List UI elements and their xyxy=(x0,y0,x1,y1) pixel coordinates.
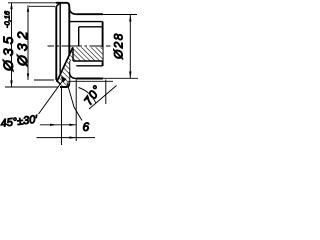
svg-text:6: 6 xyxy=(83,120,90,134)
extension line Ø28 top xyxy=(103,14,137,16)
dimension line Ø28 xyxy=(129,15,131,78)
right end face xyxy=(102,22,104,66)
arrow Ø32 bottom xyxy=(27,74,29,81)
svg-text:45°±30′: 45°±30′ xyxy=(0,113,39,130)
arrow Ø35 top xyxy=(10,3,12,10)
arrow Ø35 bottom xyxy=(10,81,12,88)
flange bottom edge with corner xyxy=(60,83,69,87)
hatch area xyxy=(73,47,103,61)
extension line 6 left xyxy=(61,88,63,145)
mouth chamfer 45 xyxy=(56,80,60,84)
arrow Ø28 bottom xyxy=(129,72,131,79)
extension line 6 right xyxy=(75,80,77,142)
top chamfer edge xyxy=(56,3,60,7)
svg-text:Ø32: Ø32 xyxy=(14,28,30,67)
extension line Ø28 bottom xyxy=(103,77,138,79)
chamfer crease line xyxy=(59,3,61,85)
bore bottom line xyxy=(73,60,103,62)
flange right side xyxy=(68,7,70,84)
centerline xyxy=(48,45,111,47)
flange top edge with corner xyxy=(56,3,69,7)
dimension line Ø32 xyxy=(27,5,29,80)
arrow Ø28 top xyxy=(129,15,131,22)
dimension line 6 xyxy=(40,124,76,126)
svg-text:-0,16: -0,16 xyxy=(3,10,12,28)
aux line below body xyxy=(68,80,113,82)
dimension line Ø35 xyxy=(11,3,13,87)
cone generatrix extension line xyxy=(89,86,117,110)
body top edge xyxy=(77,13,103,15)
inner step vertical top xyxy=(78,27,80,46)
leader 45 xyxy=(39,80,64,115)
fillet to body bottom xyxy=(69,72,76,78)
extension line top Ø35 xyxy=(8,2,57,4)
extension line Ø32 bottom xyxy=(34,79,54,81)
vertical extension 70 xyxy=(105,80,107,105)
hatch sliver left xyxy=(57,47,73,87)
extension line Ø35 bottom xyxy=(5,86,58,88)
inner recess line xyxy=(79,26,103,28)
arrow Ø32 top xyxy=(27,5,29,12)
lower line with arrow xyxy=(37,137,96,139)
bore top line xyxy=(70,21,103,23)
svg-text:70°: 70° xyxy=(81,82,105,107)
part front face xyxy=(55,6,57,80)
leader from 6 label xyxy=(67,83,82,121)
body bottom edge xyxy=(77,78,103,80)
second bore line xyxy=(76,65,102,67)
fillet to body top xyxy=(69,8,76,14)
arc 70 xyxy=(79,88,97,104)
step vertical bottom xyxy=(72,47,74,61)
svg-text:Ø28: Ø28 xyxy=(112,32,126,60)
extension line Ø32 top xyxy=(29,5,55,7)
arrow leader 45 xyxy=(61,76,67,82)
internal cone line xyxy=(57,47,73,82)
arrow 6 inner right xyxy=(69,124,76,126)
arrow 6 inner left xyxy=(50,124,57,126)
arrow lower xyxy=(69,136,76,138)
arrow 70 xyxy=(86,94,90,100)
